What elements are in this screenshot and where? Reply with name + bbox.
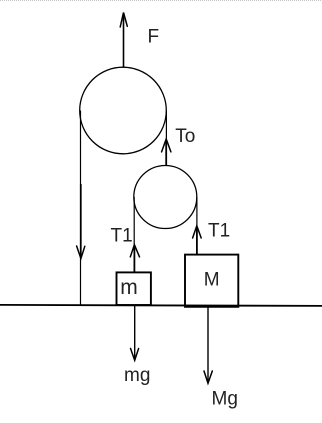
downward arrow on left rope <box>77 184 85 259</box>
label mg <box>124 365 150 386</box>
svg-text:T1: T1 <box>208 220 230 241</box>
svg-text:M: M <box>204 270 220 291</box>
right rope from small pulley to block M <box>196 197 198 255</box>
tension arrow To <box>162 139 171 166</box>
svg-text:m: m <box>120 276 138 299</box>
large pulley <box>80 67 167 154</box>
tension arrow T1 left <box>130 245 139 273</box>
small pulley <box>134 166 197 229</box>
label F <box>148 27 160 48</box>
svg-text:To: To <box>175 126 195 147</box>
label Mg <box>212 389 238 410</box>
force arrow F <box>120 13 127 68</box>
right rope from large pulley to small pulley <box>165 111 167 166</box>
label M <box>204 270 220 291</box>
weight arrow mg <box>131 305 139 360</box>
weight arrow Mg <box>204 307 212 383</box>
svg-text:mg: mg <box>124 365 150 386</box>
top dotted border <box>0 0 322 1</box>
tension arrow T1 right <box>193 226 202 255</box>
label m <box>120 276 138 299</box>
svg-text:T1: T1 <box>111 226 133 247</box>
ground line <box>0 305 322 306</box>
label To <box>175 126 195 147</box>
block m <box>117 272 151 305</box>
svg-text:F: F <box>148 27 160 48</box>
label T1 left <box>111 226 133 247</box>
block M <box>185 255 238 307</box>
left rope from large pulley to ground <box>80 111 82 306</box>
label T1 right <box>208 220 230 241</box>
svg-text:Mg: Mg <box>212 389 238 410</box>
left rope from small pulley to block m <box>133 197 135 273</box>
